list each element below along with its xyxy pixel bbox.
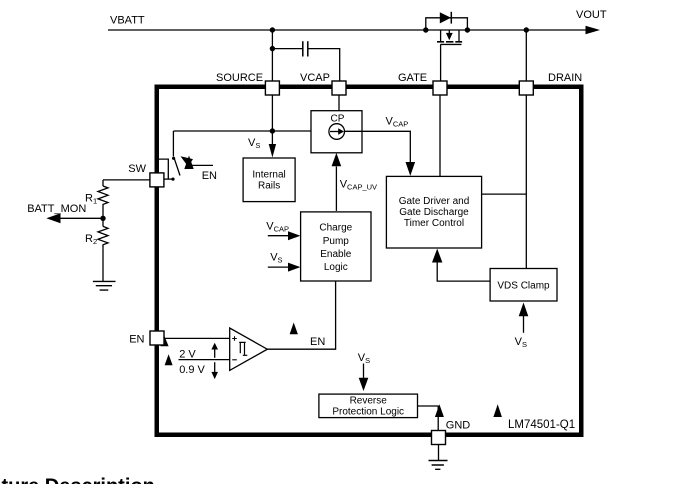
wire Vs rail horizontal (173, 130, 330, 132)
svg-text:Protection Logic: Protection Logic (332, 407, 404, 418)
resistor R2 (98, 226, 108, 248)
svg-text:DRAIN: DRAIN (548, 72, 582, 84)
svg-text:2 V: 2 V (179, 349, 196, 361)
EN control arrowhead (181, 156, 194, 166)
arrow into Internal Rails (269, 144, 276, 158)
current source circle (329, 124, 345, 140)
svg-text:VOUT: VOUT (576, 9, 607, 21)
svg-text:0.9 V: 0.9 V (179, 364, 205, 376)
svg-text:R2: R2 (85, 233, 97, 246)
pin GND (432, 431, 446, 445)
ground GND (429, 461, 448, 470)
svg-text:EN: EN (202, 170, 217, 182)
wire GND pin to ground (438, 445, 440, 461)
svg-text:Enable: Enable (320, 249, 352, 260)
svg-text:VCAP: VCAP (386, 116, 409, 129)
wire Vs into VDS clamp (523, 316, 525, 333)
svg-text:BATT_MON: BATT_MON (27, 203, 86, 215)
transistor Q1 gate bar (440, 43, 461, 45)
arrow into RPL top (359, 378, 369, 391)
svg-text:GATE: GATE (398, 72, 427, 84)
svg-text:VCAP_UV: VCAP_UV (340, 179, 377, 192)
wire VBATT rail (108, 29, 586, 31)
svg-text:Gate Driver and: Gate Driver and (399, 196, 470, 207)
wire BATT_MON (60, 217, 103, 219)
node cap branch junction (270, 46, 275, 51)
node VBATT-SOURCE junction (270, 27, 275, 32)
wire cap branch right to VCAP pin (308, 49, 339, 81)
VOUT arrowhead (586, 26, 601, 34)
svg-text:Timer Control: Timer Control (404, 218, 464, 229)
wire Vs into RPL (363, 364, 365, 379)
BATT_MON arrowhead (46, 213, 60, 223)
arrow into VDS clamp bottom (519, 303, 529, 317)
svg-text:Reverse: Reverse (350, 395, 388, 406)
block Charge Pump Enable Logic (301, 212, 371, 281)
pin DRAIN (519, 81, 533, 95)
node Vs junction (270, 128, 275, 133)
switch SW arm (174, 159, 180, 176)
svg-text:VBATT: VBATT (110, 15, 145, 27)
wire SOURCE pin inner drop (271, 95, 273, 145)
svg-text:Charge: Charge (319, 223, 352, 234)
transistor Q1 drain contact (440, 30, 442, 41)
svg-text:EN: EN (129, 334, 144, 346)
svg-text:VS: VS (358, 352, 370, 365)
transistor Q1 channel dashes (437, 41, 462, 43)
marker triangle LM74501 (493, 404, 502, 417)
svg-text:Feature Description: Feature Description (0, 476, 155, 484)
wire VCAP pin to CP (338, 95, 340, 111)
wire gate driver to drain line (482, 193, 527, 195)
node diode anode junction (423, 27, 428, 32)
switch SW bracket (158, 159, 168, 179)
wire SW pin stub (164, 178, 173, 180)
pin SW (150, 173, 164, 187)
wire divider bottom (102, 248, 104, 281)
svg-text:Gate Discharge: Gate Discharge (399, 207, 469, 218)
wire GATE pin to gate driver (439, 95, 441, 176)
svg-text:SW: SW (128, 163, 146, 175)
wire gate lead (440, 44, 442, 81)
svg-text:EN: EN (310, 336, 325, 348)
block CP charge pump (311, 111, 362, 153)
wire VCAP input arrow (268, 235, 290, 237)
diode D1 body (440, 12, 451, 23)
falling arrow (214, 362, 216, 372)
pin VCAP (332, 81, 346, 95)
wire SOURCE drop (271, 30, 273, 81)
wire diode branch (426, 18, 468, 30)
switch SW bottom contact (171, 178, 174, 181)
wire CPEL to CP (335, 167, 337, 211)
arrow into gate driver top (406, 162, 416, 176)
hysteresis symbol (239, 342, 247, 355)
arrow into gate driver bottom (432, 249, 442, 263)
svg-text:Rails: Rails (258, 181, 280, 192)
svg-text:VCAP: VCAP (266, 221, 289, 234)
switch SW top contact (172, 157, 175, 160)
svg-text:VS: VS (270, 252, 282, 265)
svg-text:Pump: Pump (323, 236, 350, 247)
block Internal Rails (243, 158, 295, 202)
svg-text:CP: CP (331, 113, 345, 124)
marker triangle threshold (165, 354, 173, 365)
EN control marker triangle (184, 156, 193, 170)
transistor Q1 source contact (458, 30, 460, 41)
wire comparator output (267, 281, 335, 349)
current source arrow (330, 131, 339, 133)
svg-text:SOURCE: SOURCE (216, 72, 263, 84)
wire cap branch left (272, 48, 302, 50)
arrow into CP bottom (332, 153, 342, 166)
svg-text:VS: VS (515, 336, 527, 349)
svg-text:R1: R1 (85, 193, 97, 206)
node BATT_MON junction (100, 216, 105, 221)
wire comparator minus input (179, 359, 230, 361)
block VDS Clamp (490, 269, 557, 302)
ground divider (93, 281, 116, 290)
svg-text:VS: VS (248, 137, 260, 150)
wire SW pin to divider (103, 179, 150, 181)
marker triangle EN net (290, 323, 298, 335)
wire switch top drop (172, 131, 174, 157)
minus sign (232, 359, 237, 361)
plus sign (232, 336, 237, 341)
wire divider middle (102, 208, 104, 226)
pin EN (150, 331, 164, 345)
svg-text:GND: GND (446, 420, 471, 432)
svg-text:LM74501-Q1: LM74501-Q1 (508, 419, 575, 431)
wire divider top (102, 180, 104, 186)
rising arrow (214, 349, 216, 358)
svg-text:VDS Clamp: VDS Clamp (497, 281, 550, 292)
pin GATE (433, 81, 447, 95)
transistor Q1 body arrow (448, 30, 450, 34)
wire RPL to GND pin (418, 406, 439, 430)
node DRAIN junction (524, 27, 529, 32)
wire DRAIN drop (525, 30, 527, 81)
block Reverse Protection Logic (319, 394, 418, 418)
wire DRAIN pin down (525, 95, 527, 269)
ic boundary thick box (157, 87, 582, 435)
diode D1 cathode bar (450, 12, 452, 24)
wire EN control (191, 164, 213, 166)
marker triangle EN pin (160, 336, 168, 346)
wire Vs input arrow (268, 266, 290, 268)
svg-text:Logic: Logic (324, 262, 348, 273)
resistor R1 (98, 186, 108, 208)
node diode cathode junction (465, 27, 470, 32)
wire EN pin to comparator (164, 337, 230, 339)
wire VDS clamp to gate driver (437, 262, 490, 281)
block Gate Driver (386, 176, 481, 248)
capacitor C1 plates (303, 41, 308, 56)
op-amp U1 comparator (230, 328, 268, 370)
svg-text:VCAP: VCAP (300, 72, 330, 84)
marker triangle GND (435, 404, 444, 417)
pin SOURCE (265, 81, 279, 95)
svg-text:Internal: Internal (252, 170, 285, 181)
wire CP out to gate driver (345, 131, 411, 163)
